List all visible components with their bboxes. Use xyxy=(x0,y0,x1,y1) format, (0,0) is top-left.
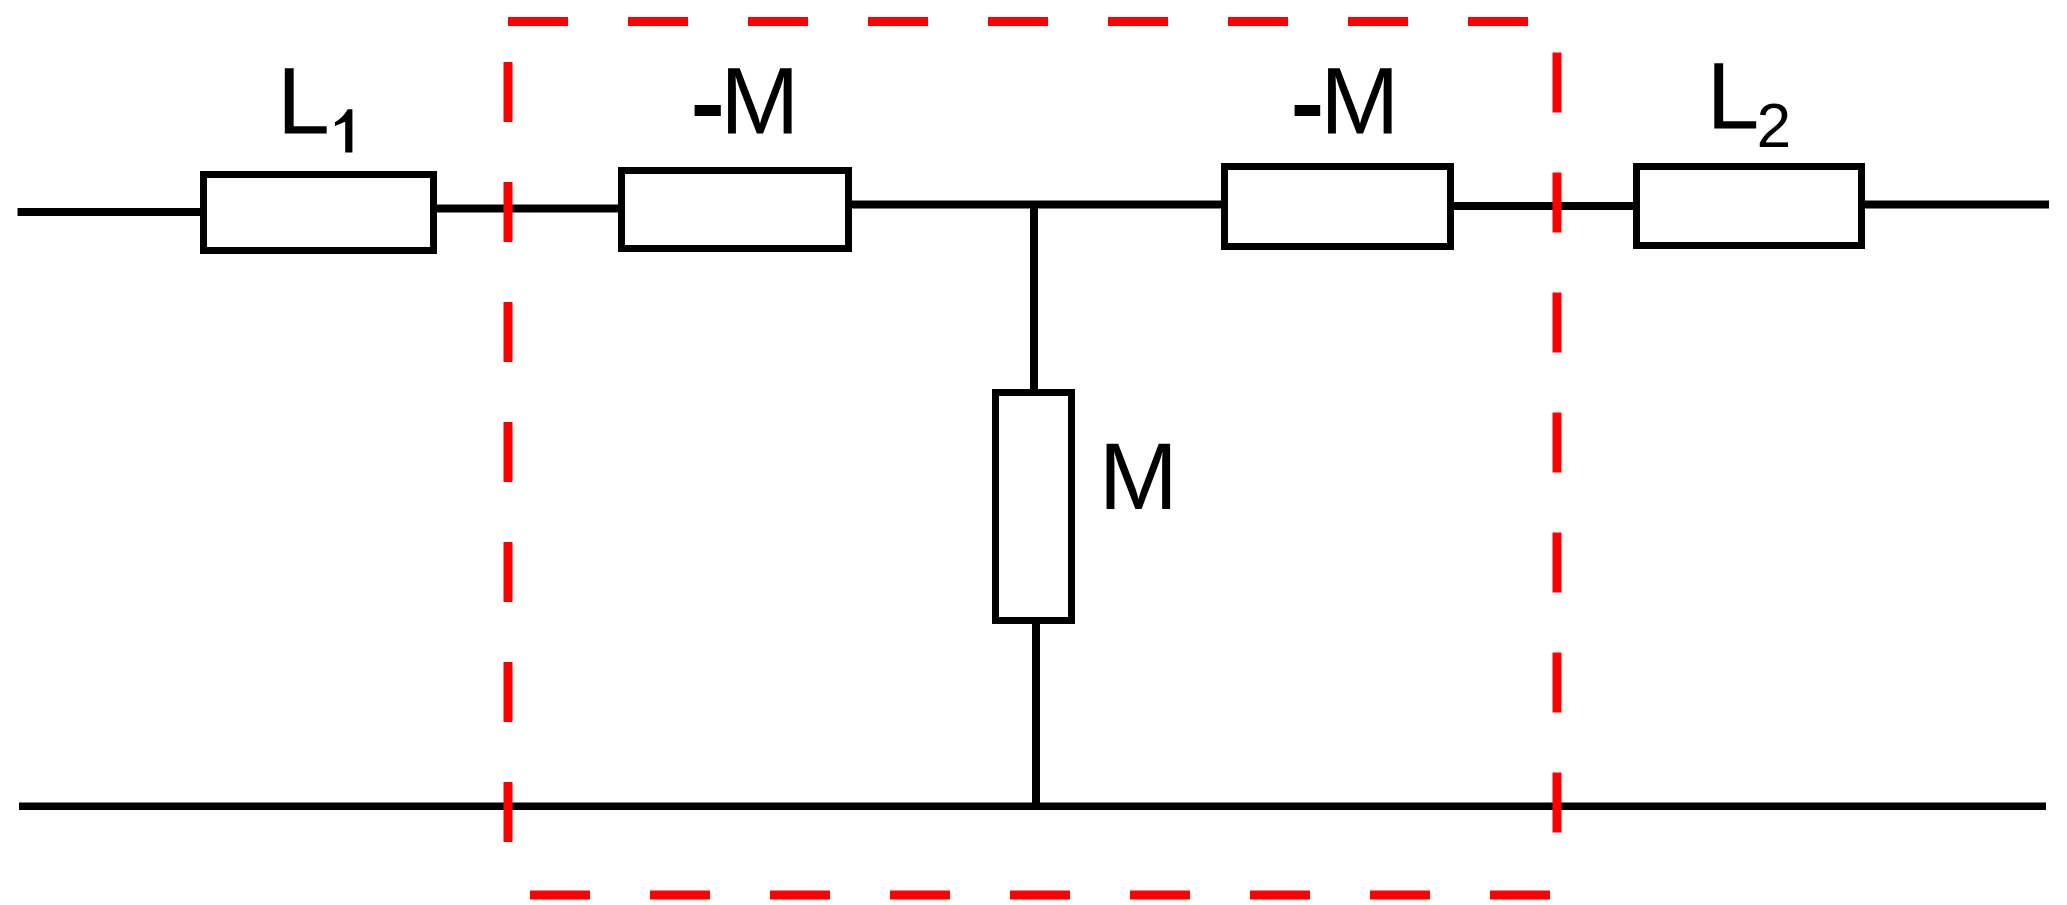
label L1 subscript 1 xyxy=(335,109,353,152)
wire: -M (right) to L2 xyxy=(1452,202,1636,210)
label -M (left) : minus sign xyxy=(695,105,721,116)
red dashed box right edge xyxy=(1553,22,1562,889)
red dashed box left edge xyxy=(504,22,513,896)
inductor L1 body xyxy=(204,175,434,251)
wire: -M (left) to node T to -M (right) xyxy=(852,201,1224,209)
svg-text:M: M xyxy=(1320,49,1399,155)
label -M (right) : minus sign xyxy=(1295,105,1321,116)
svg-text:L: L xyxy=(1707,44,1760,150)
wire: L1 to -M (left) xyxy=(437,205,621,213)
svg-text:2: 2 xyxy=(1757,92,1791,161)
svg-text:M: M xyxy=(1099,424,1178,530)
inductor -M (right) body xyxy=(1225,167,1451,247)
inductor M (shunt) body xyxy=(996,393,1072,621)
wire: L2 to right output lead xyxy=(1863,201,2049,209)
inductor -M (left) body xyxy=(622,171,849,249)
inductor L2 body xyxy=(1637,167,1862,246)
wire: left input lead xyxy=(18,208,204,216)
wire: bottom return rail xyxy=(19,803,2046,811)
svg-text:M: M xyxy=(720,49,799,155)
red dashed box (equivalent T-network boundary) top edge xyxy=(508,17,1557,26)
red dashed box bottom edge xyxy=(508,891,1557,900)
wire: node T down to M xyxy=(1030,204,1038,390)
svg-text:L: L xyxy=(277,49,330,155)
wire: M down to bottom rail xyxy=(1032,622,1040,808)
